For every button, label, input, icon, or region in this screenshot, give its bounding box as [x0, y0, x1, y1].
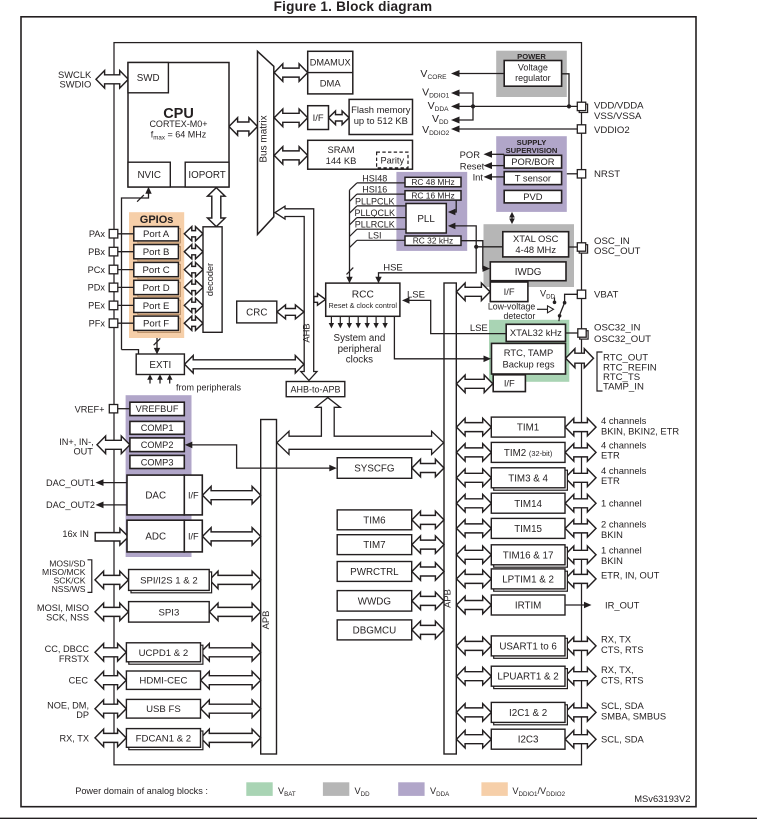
- svg-text:MOSI, MISO: MOSI, MISO: [37, 603, 89, 613]
- svg-text:COMP2: COMP2: [141, 440, 174, 450]
- wire VDDIO1 branch: [460, 93, 474, 106]
- svg-text:VSS/VSSA: VSS/VSSA: [594, 111, 642, 122]
- arrow DBGMCU to APB: [412, 621, 444, 639]
- block COMP3: [130, 455, 184, 468]
- arrow DAC I/F to APB: [203, 486, 261, 504]
- svg-text:LPUART1 & 2: LPUART1 & 2: [497, 672, 558, 683]
- block T sensor: [504, 172, 561, 185]
- arrow SWCLK/SWDIO to SWD: [96, 71, 128, 89]
- svg-text:ADC: ADC: [145, 532, 166, 543]
- arrow LPTIM1 &amp; 2 pins: [565, 570, 596, 588]
- block SPI3: [129, 602, 210, 623]
- svg-text:I/F: I/F: [313, 112, 324, 123]
- svg-text:DMA: DMA: [320, 78, 342, 89]
- RTC VBAT domain block (green): [489, 320, 569, 382]
- pins PAx-PFx: [109, 229, 118, 238]
- AHB bus bar from Bus matrix down to AHB-to-APB bridge: [275, 206, 317, 380]
- wire RC 16 MHz output to PLL input: [450, 200, 456, 212]
- pin NRST: [577, 170, 585, 178]
- svg-text:Power domain of analog blocks: Power domain of analog blocks :: [75, 786, 208, 796]
- svg-text:RC 32 kHz: RC 32 kHz: [413, 236, 454, 246]
- wire SYSCFG to COMP2: [188, 445, 333, 468]
- svg-text:GPIOs: GPIOs: [140, 214, 174, 226]
- svg-text:TIM1: TIM1: [517, 423, 539, 434]
- svg-text:I/F: I/F: [504, 286, 515, 297]
- svg-text:TIM7: TIM7: [363, 540, 385, 551]
- block SRAM: [308, 140, 413, 169]
- arrow UCPD pins: [95, 644, 126, 662]
- legend VDDA swatch: [398, 782, 424, 796]
- arrow TIM16 &amp; 17 pins: [565, 546, 596, 564]
- svg-text:Int: Int: [473, 172, 484, 183]
- page footer rule: [0, 817, 757, 819]
- wire EXTI to NVIC interrupt: [122, 193, 149, 350]
- arrows GPIO ports to decoder: [184, 227, 203, 241]
- block XTAL OSC 4-48 MHz: [503, 232, 569, 257]
- wire RCC system clock outputs: [330, 316, 332, 324]
- AHB-to-APB trunk bus with arrows to both APB bars: [277, 398, 444, 455]
- svg-text:4-48 MHz: 4-48 MHz: [515, 244, 556, 255]
- svg-text:PEx: PEx: [88, 301, 105, 311]
- block AHB-to-APB: [286, 382, 345, 397]
- wire voltage regulator to VDD line: [562, 74, 569, 107]
- svg-text:SYSCFG: SYSCFG: [354, 464, 394, 475]
- svg-text:BKIN: BKIN: [601, 555, 623, 566]
- arrow I2C3 pins: [565, 730, 596, 748]
- left APB bus bar: [261, 420, 277, 755]
- svg-text:POR: POR: [460, 149, 481, 160]
- block Flash I/F: [308, 106, 329, 130]
- block PLL: [406, 204, 446, 234]
- svg-text:RX, TX: RX, TX: [60, 733, 89, 743]
- block PWRCTRL: [337, 562, 412, 582]
- svg-text:ETR: ETR: [601, 475, 620, 486]
- arrow APB to I2C3: [457, 730, 492, 748]
- arrow CRC to AHB: [277, 305, 304, 319]
- svg-text:PDx: PDx: [88, 283, 106, 293]
- svg-text:USART1 to 6: USART1 to 6: [499, 641, 557, 652]
- svg-text:WWDG: WWDG: [358, 596, 391, 607]
- arrow APB to TIM14: [457, 494, 492, 512]
- svg-text:FDCAN1 & 2: FDCAN1 & 2: [136, 733, 191, 744]
- arrow 16x IN to ADC: [95, 528, 128, 545]
- arrow APB to TIM15: [457, 520, 492, 538]
- svg-text:SCL, SDA: SCL, SDA: [601, 734, 644, 745]
- svg-text:NOE, DM,: NOE, DM,: [47, 700, 89, 710]
- svg-text:MSv63193V2: MSv63193V2: [634, 793, 690, 804]
- svg-text:FRSTX: FRSTX: [59, 654, 89, 664]
- svg-text:PLL: PLL: [417, 214, 435, 225]
- block XTAL32 kHz: [506, 324, 565, 341]
- block IOPORT: [185, 162, 229, 187]
- arrow TIM6 to APB: [412, 511, 444, 528]
- svg-text:SWD: SWD: [137, 73, 160, 84]
- wire LSI RC 32 kHz to IWDG: [461, 241, 486, 269]
- svg-text:PLLQCLK: PLLQCLK: [355, 208, 396, 218]
- arrow CPU to Bus matrix: [229, 118, 258, 136]
- svg-text:LSE: LSE: [470, 323, 488, 334]
- legend VBAT swatch: [246, 782, 272, 796]
- wire XTAL OSC to OSC pins: [569, 246, 578, 248]
- pin VDDIO2: [577, 125, 585, 133]
- svg-text:TIM16 & 17: TIM16 & 17: [503, 550, 554, 561]
- arrow PWRCTRL to APB: [412, 563, 444, 581]
- svg-text:TIM3 & 4: TIM3 & 4: [508, 473, 548, 484]
- svg-text:SMBA, SMBUS: SMBA, SMBUS: [601, 711, 666, 722]
- svg-text:Voltage: Voltage: [518, 63, 548, 73]
- block RC 48 MHz: [405, 177, 461, 187]
- block CRC: [237, 301, 277, 323]
- arrow IOPORT to GPIO decoder: [208, 188, 226, 227]
- wire GPIO ports to EXTI: [156, 338, 158, 349]
- svg-text:I/F: I/F: [504, 378, 515, 389]
- arrow supply supervision to XTAL OSC block: [511, 215, 513, 221]
- svg-text:decoder: decoder: [205, 263, 215, 296]
- wire EXTI junction from port bus: [122, 350, 139, 354]
- wire VDDIO2 from pin: [460, 128, 578, 130]
- legend VDD swatch: [323, 782, 349, 796]
- pin OSC32_IN/OSC32_OUT: [580, 331, 588, 339]
- svg-text:IWDG: IWDG: [515, 267, 542, 278]
- wire from peripherals arrows into EXTI: [149, 380, 151, 384]
- arrow TIM15 pins: [565, 520, 596, 538]
- wire VDD/VDDA pin rail: [460, 105, 578, 107]
- svg-text:Bus matrix: Bus matrix: [259, 115, 270, 162]
- block RTC TAMP backup registers: [492, 343, 566, 374]
- svg-text:RTC, TAMP: RTC, TAMP: [504, 347, 553, 358]
- svg-text:DAC_OUT1: DAC_OUT1: [46, 478, 95, 488]
- block SPI/I2S 1 and 2: [131, 572, 212, 593]
- arrow APB to TIM16 &amp; 17: [457, 546, 492, 564]
- wire DAC_OUT2: [103, 504, 127, 506]
- arrow EXTI to AHB: [185, 356, 304, 374]
- block Flash memory: [349, 99, 412, 134]
- svg-text:Reset: Reset: [460, 161, 485, 172]
- svg-text:SCL, SDA: SCL, SDA: [601, 700, 644, 711]
- XTAL OSC VDD domain block (gray): [484, 224, 575, 287]
- pin OSC_IN/OSC_OUT: [579, 245, 587, 253]
- svg-text:VREFBUF: VREFBUF: [136, 404, 179, 414]
- arrow UCPD to APB: [201, 644, 261, 662]
- wire HSI16 to RC 16 MHz: [357, 193, 405, 195]
- arrow APB to I2C1 &amp; 2: [457, 704, 492, 722]
- block USART1 to 6: [494, 638, 568, 658]
- arrow Bus matrix to Flash I/F: [274, 109, 308, 127]
- svg-text:Port F: Port F: [143, 319, 169, 330]
- arrow USB FS to APB: [201, 700, 261, 718]
- block IWDG I/F: [490, 282, 528, 302]
- wire IRTIM to IR_OUT: [566, 604, 586, 606]
- block DAC: [127, 475, 184, 515]
- svg-text:IRTIM: IRTIM: [515, 601, 542, 612]
- svg-text:CTS, RTS: CTS, RTS: [601, 674, 644, 685]
- svg-text:I2C3: I2C3: [518, 735, 539, 746]
- block SYSCFG: [337, 458, 412, 479]
- svg-text:TIM6: TIM6: [363, 515, 386, 526]
- arrow APB to RTC I/F: [457, 375, 493, 393]
- svg-text:PBx: PBx: [88, 247, 105, 257]
- svg-text:CTS, RTS: CTS, RTS: [601, 644, 644, 655]
- block ADC: [127, 520, 184, 552]
- arrow APB to TIM2: [457, 444, 492, 462]
- svg-text:HSI16: HSI16: [362, 185, 387, 195]
- svg-text:Port A: Port A: [143, 229, 170, 240]
- block UCPD1 and 2: [129, 645, 203, 664]
- supply supervision VDDA domain block (purple): [496, 136, 567, 212]
- block FDCAN1 and 2: [129, 731, 203, 750]
- svg-text:CORTEX-M0+: CORTEX-M0+: [149, 119, 207, 129]
- arrow I2C1 &amp; 2 pins: [565, 704, 596, 722]
- svg-text:TIM15: TIM15: [514, 524, 542, 535]
- block TIM2: [491, 442, 565, 462]
- svg-text:DMAMUX: DMAMUX: [310, 58, 351, 68]
- svg-text:up to 512 KB: up to 512 KB: [354, 115, 408, 126]
- svg-text:Port C: Port C: [142, 265, 169, 276]
- arrow APB to TIM1: [457, 418, 492, 436]
- svg-text:PVD: PVD: [523, 191, 543, 202]
- svg-text:DBGMCU: DBGMCU: [353, 625, 397, 636]
- device boundary rect: [114, 43, 582, 765]
- VBAT switch circuit: [565, 294, 578, 301]
- svg-text:COMP3: COMP3: [141, 457, 174, 467]
- arrow SPI3 pins: [95, 603, 128, 621]
- svg-text:LSI: LSI: [368, 231, 382, 241]
- svg-text:SRAM: SRAM: [327, 144, 354, 155]
- svg-text:CC, DBCC: CC, DBCC: [45, 644, 90, 654]
- wires pins to ports: [118, 233, 134, 235]
- svg-text:LPTIM1 & 2: LPTIM1 & 2: [502, 574, 554, 585]
- svg-text:DAC_OUT2: DAC_OUT2: [46, 500, 95, 510]
- wire HSE from XTAL OSC to PLL and RCC: [450, 226, 503, 247]
- block HDMI-CEC: [126, 671, 200, 689]
- svg-text:SWDIO: SWDIO: [60, 79, 92, 90]
- svg-text:APB: APB: [260, 611, 271, 630]
- analog VDDA domain block (purple): [126, 395, 192, 557]
- wire VDD branch: [460, 106, 474, 120]
- svg-text:PFx: PFx: [89, 319, 106, 329]
- block DBGMCU: [337, 620, 412, 640]
- block CPU: [128, 63, 229, 188]
- svg-text:VDD/VDDA: VDD/VDDA: [594, 101, 644, 112]
- svg-text:TIM14: TIM14: [514, 499, 542, 510]
- block WWDG: [337, 591, 412, 612]
- svg-text:UCPD1 & 2: UCPD1 & 2: [139, 648, 189, 659]
- svg-text:Port D: Port D: [142, 283, 169, 294]
- svg-text:16x IN: 16x IN: [62, 529, 89, 539]
- block LPTIM1 &amp; 2: [494, 571, 568, 591]
- svg-text:System and: System and: [334, 333, 386, 344]
- wire PLLRCLK to PLL: [357, 228, 406, 230]
- svg-text:POWER: POWER: [517, 52, 546, 61]
- svg-text:Parity: Parity: [381, 155, 405, 165]
- arrow TIM7 to APB: [412, 536, 444, 554]
- arrow WWDG to APB: [412, 592, 444, 610]
- arrow USART1 to 6 pins: [565, 637, 596, 655]
- arrow APB to LPTIM1 &amp; 2: [457, 570, 492, 588]
- wire RCC RTCCLK to RTC: [394, 316, 487, 359]
- svg-text:clocks: clocks: [346, 354, 373, 365]
- svg-text:Port B: Port B: [143, 247, 170, 258]
- svg-text:AHB: AHB: [300, 323, 311, 342]
- arrow APB to IRTIM: [457, 596, 492, 614]
- arrow TIM14 pins: [565, 494, 596, 512]
- arrow SYSCFG to APB: [412, 459, 444, 477]
- wire Reset output: [492, 165, 504, 167]
- arrow TIM1 pins: [565, 418, 596, 436]
- legend VDDIO swatch: [481, 782, 507, 796]
- block ADC I/F: [184, 520, 202, 552]
- block POR/BOR: [504, 155, 561, 168]
- svg-text:I/F: I/F: [188, 490, 199, 500]
- block IRTIM: [491, 595, 565, 615]
- wire clock sources bus into RCC: [349, 190, 351, 278]
- block USB FS: [126, 699, 200, 718]
- block TIM14: [491, 493, 565, 513]
- svg-text:SPI3: SPI3: [158, 607, 179, 618]
- block RC 16 MHz: [405, 191, 461, 200]
- wire HSI48 to RC 48 MHz: [357, 182, 405, 184]
- wire Int output: [492, 176, 504, 178]
- block TIM16 &amp; 17: [494, 547, 568, 567]
- svg-text:RX, TX,: RX, TX,: [601, 664, 634, 675]
- block DMAMUX / DMA: [308, 51, 353, 94]
- block Parity (dashed): [377, 152, 408, 168]
- svg-text:NSS/WS: NSS/WS: [52, 584, 86, 594]
- svg-text:LSE: LSE: [407, 289, 425, 300]
- block TIM15: [491, 518, 565, 538]
- svg-text:SPI/I2S 1 & 2: SPI/I2S 1 & 2: [140, 575, 198, 586]
- svg-text:BKIN, BKIN2, ETR: BKIN, BKIN2, ETR: [601, 426, 679, 437]
- svg-text:Backup regs: Backup regs: [502, 358, 554, 369]
- svg-text:HSE: HSE: [383, 263, 403, 274]
- wire XTAL32 to OSC32 pins: [566, 332, 578, 334]
- svg-text:RC 16 MHz: RC 16 MHz: [411, 190, 454, 200]
- arrow Bus matrix to DMAMUX/DMA: [274, 64, 308, 82]
- svg-text:PWRCTRL: PWRCTRL: [350, 567, 399, 578]
- wire VCORE from voltage regulator: [460, 73, 505, 75]
- svg-text:DP: DP: [76, 710, 89, 720]
- svg-text:detector: detector: [504, 311, 536, 321]
- svg-text:from peripherals: from peripherals: [176, 382, 242, 392]
- right APB bus bar: [444, 283, 456, 754]
- arrow FDCAN to APB: [201, 729, 261, 747]
- pin VBAT: [577, 290, 585, 298]
- wire LSI to RC 32 kHz: [357, 239, 405, 241]
- block SWD: [128, 63, 168, 93]
- arrow SPI3 to APB: [209, 603, 260, 621]
- wire VREF+ to VREFBUF: [118, 408, 130, 410]
- svg-text:IN+, IN-,: IN+, IN-,: [59, 437, 93, 447]
- svg-text:SCK, NSS: SCK, NSS: [46, 612, 89, 622]
- RTC pin group bracket: [597, 352, 603, 391]
- svg-text:DAC: DAC: [145, 491, 166, 502]
- arrow SPI/I2S to APB: [209, 571, 260, 589]
- svg-text:OUT: OUT: [73, 447, 93, 457]
- block COMP1: [130, 421, 184, 434]
- block TIM3 &amp; 4: [494, 470, 568, 490]
- svg-text:VDDIO2: VDDIO2: [594, 125, 630, 136]
- block PVD: [504, 190, 561, 203]
- svg-text:regulator: regulator: [515, 73, 551, 83]
- block I2C1 &amp; 2: [494, 705, 568, 725]
- svg-text:HDMI-CEC: HDMI-CEC: [139, 676, 187, 687]
- block RC 32 kHz: [405, 236, 461, 245]
- svg-text:TAMP_IN: TAMP_IN: [603, 382, 644, 393]
- arrow HDMI-CEC pins: [95, 671, 126, 689]
- block IWDG: [490, 262, 566, 281]
- svg-text:CRC: CRC: [246, 308, 267, 319]
- svg-text:USB FS: USB FS: [146, 704, 181, 715]
- svg-text:peripheral: peripheral: [338, 344, 382, 355]
- svg-text:I2C1 & 2: I2C1 & 2: [509, 708, 547, 719]
- svg-text:OSC32_IN: OSC32_IN: [594, 323, 640, 334]
- wire PLLPCLK to PLL: [357, 205, 406, 207]
- arrow HDMI-CEC to APB: [201, 671, 261, 689]
- wire PLLQCLK to PLL: [357, 217, 406, 219]
- arrow ADC I/F to APB: [203, 528, 261, 546]
- svg-text:XTAL32 kHz: XTAL32 kHz: [510, 327, 562, 338]
- svg-text:Figure 1. Block diagram: Figure 1. Block diagram: [274, 0, 433, 14]
- svg-text:XTAL OSC: XTAL OSC: [513, 233, 559, 244]
- svg-text:ETR: ETR: [601, 450, 620, 461]
- svg-text:1 channel: 1 channel: [601, 545, 642, 556]
- svg-text:VREF+: VREF+: [75, 404, 105, 414]
- arrow comparator IN+ IN- OUT: [97, 436, 130, 454]
- arrow USB FS pins: [95, 700, 126, 718]
- arrow SPI/I2S pins: [95, 571, 128, 589]
- svg-text:RCC: RCC: [352, 290, 374, 301]
- GPIOs VDDIO domain block (orange): [129, 212, 184, 338]
- block I2C3: [491, 729, 565, 749]
- block COMP2: [130, 438, 184, 452]
- block DAC I/F: [184, 475, 202, 515]
- arrow AHB to RCC: [314, 294, 326, 306]
- svg-text:Low-voltage: Low-voltage: [488, 302, 536, 312]
- clocks VDDA domain block (purple): [396, 172, 467, 251]
- svg-text:HSI48: HSI48: [362, 173, 387, 183]
- wire LSE from XTAL32 to RCC: [404, 300, 506, 333]
- pin VDD/VDDA and VSS/VSSA: [579, 104, 587, 112]
- arrow APB to LPUART1 &amp; 2: [457, 667, 492, 685]
- block RTC I/F: [493, 375, 525, 392]
- svg-text:PCx: PCx: [88, 265, 106, 275]
- svg-text:I/F: I/F: [188, 531, 199, 541]
- arrow APB to TIM3 &amp; 4: [457, 469, 492, 487]
- block TIM7: [337, 535, 412, 555]
- svg-text:CEC: CEC: [69, 676, 89, 686]
- svg-text:ETR, IN, OUT: ETR, IN, OUT: [601, 569, 660, 580]
- block RCC: [326, 283, 400, 316]
- wire DAC_OUT1: [103, 482, 127, 484]
- wire POR output: [492, 153, 504, 155]
- arrow TIM3 &amp; 4 pins: [565, 469, 596, 487]
- block VREFBUF: [130, 402, 184, 415]
- svg-text:OSC_OUT: OSC_OUT: [594, 246, 641, 257]
- svg-text:IR_OUT: IR_OUT: [605, 599, 640, 610]
- svg-text:Reset & clock control: Reset & clock control: [329, 301, 398, 310]
- block decoder: [203, 227, 222, 332]
- svg-text:COMP1: COMP1: [141, 423, 174, 433]
- svg-text:TIM2 (32-bit): TIM2 (32-bit): [504, 448, 552, 459]
- block Bus matrix: [258, 51, 274, 234]
- svg-text:BKIN: BKIN: [601, 529, 623, 540]
- wire NRST to POR/BOR: [567, 173, 577, 175]
- svg-text:VBAT: VBAT: [594, 290, 618, 301]
- pin VREF+: [109, 405, 117, 413]
- svg-text:PLLRCLK: PLLRCLK: [355, 220, 395, 230]
- block TIM6: [337, 510, 412, 530]
- arrow RTC to RTC pins: [566, 349, 594, 368]
